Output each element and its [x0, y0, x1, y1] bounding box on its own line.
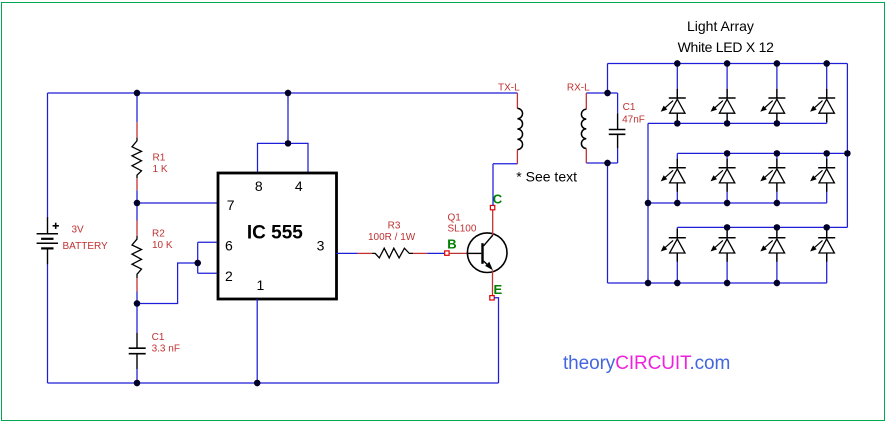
- wire row1 bottom rail: [648, 122, 827, 124]
- svg-text:6: 6: [225, 238, 233, 254]
- wire pin1: [256, 299, 258, 383]
- svg-text:1: 1: [257, 277, 265, 293]
- LED D4 (row 1 col 4): [810, 64, 835, 124]
- wire array top rail: [608, 63, 848, 65]
- svg-text:C1: C1: [623, 102, 636, 113]
- node pin7: [134, 200, 140, 206]
- wire RX node up to array rail: [607, 64, 609, 94]
- svg-text:B: B: [447, 237, 456, 252]
- resistor R2: [132, 203, 142, 304]
- wire TX-L bottom to collector: [493, 163, 517, 165]
- svg-text:C: C: [493, 192, 503, 207]
- LED D6 (row 2 col 2): [711, 153, 736, 203]
- svg-text:C1: C1: [152, 332, 165, 343]
- wire collector up: [492, 164, 494, 206]
- battery B1: [37, 217, 59, 264]
- wire pin6: [198, 241, 217, 243]
- svg-text:E: E: [494, 282, 503, 297]
- svg-text:Q1: Q1: [448, 212, 462, 223]
- array junction dots: [674, 60, 680, 66]
- node R1 top: [134, 90, 140, 96]
- node RX top: [604, 90, 610, 96]
- svg-text:3.3 nF: 3.3 nF: [152, 344, 180, 355]
- wire pin2: [198, 272, 217, 274]
- capacitor C1 3.3nF: [129, 304, 146, 384]
- wire row3 top rail: [677, 226, 847, 228]
- wire row2 bottom rail: [648, 202, 827, 204]
- svg-text:3: 3: [317, 238, 325, 254]
- wire array left vertical: [647, 123, 649, 283]
- svg-text:R1: R1: [153, 152, 166, 163]
- capacitor C1 47nF: [609, 93, 626, 163]
- node RX bottom: [604, 160, 610, 166]
- svg-text:4: 4: [295, 178, 303, 194]
- transistor Q1: [449, 210, 507, 296]
- wire left battery branch lower: [47, 264, 49, 383]
- wire 8-4 drop: [287, 93, 289, 143]
- svg-text:* See text: * See text: [516, 169, 577, 185]
- wire array right vertical: [846, 64, 848, 228]
- node C terminal: [490, 205, 494, 209]
- svg-text:3V: 3V: [72, 225, 85, 236]
- wire pin7: [137, 202, 217, 204]
- node 8-4 bracket: [285, 140, 291, 146]
- wire RX bottom link: [586, 162, 617, 164]
- wire row3 bottom rail: [608, 282, 827, 284]
- svg-text:10 K: 10 K: [152, 240, 173, 251]
- svg-text:1 K: 1 K: [153, 164, 168, 175]
- resistor R3: [358, 248, 445, 258]
- LED D5 (row 2 col 1): [661, 153, 686, 203]
- node C1 bottom: [134, 380, 140, 386]
- svg-text:R2: R2: [152, 228, 165, 239]
- LED D8 (row 2 col 4): [810, 153, 835, 203]
- LED D3 (row 1 col 3): [760, 64, 785, 124]
- LED D7 (row 2 col 3): [760, 153, 785, 203]
- inductor TX-L: [517, 93, 522, 164]
- wire 6-2 to R2 bottom: [137, 263, 198, 304]
- svg-text:White LED X 12: White LED X 12: [678, 39, 775, 55]
- wire bottom rail: [48, 382, 499, 384]
- LED D1 (row 1 col 1): [661, 64, 686, 124]
- resistor R1: [132, 93, 142, 203]
- wire 6-2 vertical: [197, 242, 199, 273]
- node R2 bottom: [134, 300, 140, 306]
- svg-text:RX-L: RX-L: [567, 82, 590, 93]
- svg-text:47nF: 47nF: [622, 114, 645, 125]
- svg-text:8: 8: [255, 178, 263, 194]
- wire 8-4 bracket: [258, 143, 309, 172]
- wire left battery branch upper: [47, 93, 49, 218]
- wire row2 top rail: [677, 152, 847, 154]
- node 6-2: [195, 260, 201, 266]
- svg-text:theoryCIRCUIT.com: theoryCIRCUIT.com: [563, 353, 730, 374]
- node 8-4 rail: [285, 90, 291, 96]
- svg-text:Light Array: Light Array: [687, 18, 754, 34]
- wire RX top link: [586, 92, 617, 94]
- wire RX node down: [607, 163, 609, 283]
- wire top rail: [48, 92, 518, 94]
- svg-text:BATTERY: BATTERY: [63, 241, 109, 252]
- node B terminal: [445, 251, 449, 255]
- LED D9 (row 3 col 1): [661, 227, 686, 283]
- LED D12 (row 3 col 4): [810, 227, 835, 283]
- svg-text:7: 7: [227, 197, 235, 213]
- svg-text:2: 2: [225, 268, 233, 284]
- wire pin3: [337, 252, 358, 254]
- junction dots overlay: [134, 60, 851, 386]
- svg-text:SL100: SL100: [448, 223, 477, 234]
- op-amp U1 IC 555 box: [218, 173, 337, 299]
- svg-text:100R / 1W: 100R / 1W: [368, 232, 416, 243]
- wire emitter to bottom rail: [494, 298, 498, 383]
- node E terminal: [490, 296, 494, 300]
- svg-text:IC 555: IC 555: [247, 223, 303, 244]
- LED D10 (row 3 col 2): [711, 227, 736, 283]
- node pin1 bottom: [254, 380, 260, 386]
- LED D11 (row 3 col 3): [760, 227, 785, 283]
- LED D2 (row 1 col 2): [711, 64, 736, 124]
- svg-text:TX-L: TX-L: [498, 82, 520, 93]
- svg-text:R3: R3: [388, 221, 401, 232]
- inductor RX-L: [581, 93, 586, 163]
